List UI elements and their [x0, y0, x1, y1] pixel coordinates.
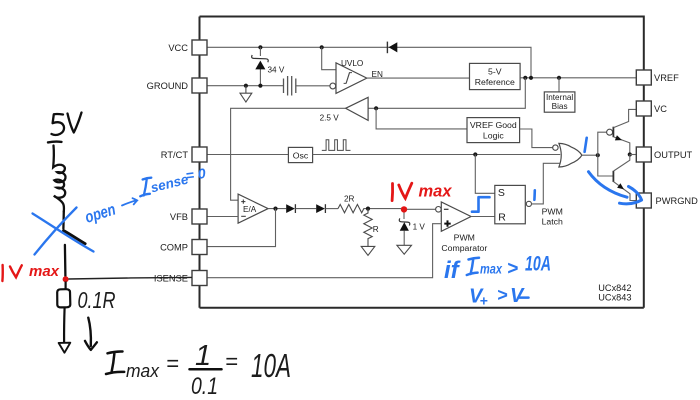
blue note V+ > V-	[469, 285, 529, 309]
svg-text:VFB: VFB	[170, 212, 188, 222]
latch PWM Latch SR flip-flop	[495, 185, 532, 223]
node ground-symbol junction	[244, 84, 248, 88]
svg-text:10A: 10A	[525, 253, 551, 276]
switch blade open	[64, 231, 86, 244]
svg-text:Logic: Logic	[483, 130, 504, 140]
node buffer input branch	[374, 106, 378, 110]
block Osc	[288, 147, 312, 162]
svg-text:GROUND: GROUND	[147, 81, 189, 91]
wire latch output to NOR input	[531, 163, 560, 204]
svg-text:VCC: VCC	[168, 43, 188, 53]
wire dot to resistor	[64, 282, 66, 290]
wire NOR output	[582, 154, 598, 156]
equation Imax = 1/0.1 = 10A	[106, 340, 291, 400]
wire Osc output clock line	[313, 154, 561, 156]
svg-text:1 V: 1 V	[413, 222, 426, 231]
IC outline UCx842 block border	[200, 17, 644, 308]
wire VREF rail	[520, 77, 636, 79]
wire VREF Good Logic to NOR input	[520, 129, 553, 148]
svg-text:Internal: Internal	[546, 93, 573, 102]
wire VCC rail	[207, 47, 531, 78]
svg-text:VREF Good: VREF Good	[470, 120, 517, 130]
zener diode 34V	[252, 47, 269, 85]
op-amp PWM comparator	[436, 202, 471, 231]
svg-text:RT/CT: RT/CT	[161, 150, 189, 160]
wire hand-drawn to ISENSE pin	[69, 277, 193, 279]
svg-text:max: max	[419, 182, 453, 201]
pin VFB	[170, 209, 207, 224]
blue note open -> Isense = 0	[83, 165, 207, 227]
svg-text:max: max	[29, 263, 60, 280]
pin PWRGND	[636, 193, 698, 208]
svg-text:OUTPUT: OUTPUT	[654, 150, 693, 160]
ground symbol below 1V zener	[397, 245, 412, 254]
svg-text:>: >	[497, 285, 508, 305]
svg-text:VREF: VREF	[654, 73, 679, 83]
wire comparator output to R input	[471, 216, 495, 218]
svg-text:+: +	[480, 293, 488, 309]
svg-text:0.1: 0.1	[191, 373, 218, 400]
pin COMP	[160, 240, 207, 255]
svg-text:COMP: COMP	[160, 242, 188, 252]
ground symbol below GROUND rail	[240, 86, 252, 102]
wire VFB to E/A minus input	[207, 216, 238, 218]
wire resistor to ground arrow	[63, 308, 66, 343]
diode D2	[286, 204, 295, 213]
wire branch to VREF Good Logic	[376, 108, 467, 129]
node output junction	[628, 152, 632, 156]
svg-text:Osc: Osc	[293, 150, 309, 160]
clock waveform glyph	[322, 140, 351, 151]
fraction bar	[190, 368, 222, 371]
gate NOR output gate	[553, 143, 582, 167]
wire VREF to internal bias	[558, 78, 560, 92]
block 5-V Reference	[470, 63, 521, 89]
svg-text:= 0: = 0	[185, 165, 207, 184]
node sense red dot	[63, 276, 69, 282]
wire battery to UVLO input	[296, 85, 330, 87]
node VREF rail diode branch	[529, 76, 533, 80]
node VREF rail bias branch	[557, 76, 561, 80]
svg-text:1: 1	[195, 340, 211, 372]
svg-text:34 V: 34 V	[268, 66, 285, 75]
svg-text:=: =	[166, 351, 179, 376]
svg-text:Bias: Bias	[552, 102, 568, 111]
node zener-bottom junction	[258, 84, 262, 88]
svg-text:V: V	[510, 285, 525, 307]
svg-text:VC: VC	[654, 104, 667, 114]
svg-text:2.5 V: 2.5 V	[320, 114, 340, 123]
wire clock branch to S input	[475, 155, 495, 194]
svg-text:sense: sense	[149, 171, 190, 195]
wire VCC to UVLO upper input	[322, 47, 336, 69]
arrow hand-drawn down	[88, 318, 91, 346]
handwritten 5V label	[52, 113, 82, 135]
blue mark 1 at latch output	[533, 190, 536, 200]
node clock to S-input branch	[473, 152, 477, 156]
wire ISENSE to comparator plus input	[207, 224, 441, 278]
svg-text:UVLO: UVLO	[341, 59, 363, 68]
pin RT/CT	[161, 147, 207, 162]
node VREF rail 2.5V branch	[523, 76, 527, 80]
zener diode 1V clamp	[399, 212, 410, 245]
svg-text:UCx842: UCx842	[598, 283, 631, 293]
buffer 2.5V reference	[346, 97, 369, 120]
red label 1 V max left	[2, 263, 59, 281]
pin OUTPUT	[636, 147, 692, 162]
wire 2R to comparator minus	[364, 208, 401, 210]
node NOR output	[596, 153, 600, 157]
pin VREF	[636, 70, 679, 85]
wire VREF branch to 2.5V buffer	[368, 78, 525, 109]
wire GROUND rail	[207, 85, 283, 87]
blue curved arrow to PWRGND	[589, 172, 642, 204]
svg-text:max: max	[480, 261, 503, 277]
wire D2 to D3	[296, 208, 317, 210]
pin VC	[636, 101, 667, 116]
svg-text:5-V: 5-V	[488, 66, 502, 76]
wire feedback to COMP pin	[207, 209, 276, 247]
wire clamp node to comparator minus input	[404, 208, 436, 210]
inductor hand-drawn coil	[53, 146, 65, 212]
wire coil to switch	[62, 212, 65, 229]
blue step mark at R input	[472, 197, 490, 212]
svg-text:E/A: E/A	[243, 205, 257, 214]
svg-text:2R: 2R	[344, 194, 355, 203]
wire E/A output	[268, 208, 286, 210]
svg-text:max: max	[126, 361, 160, 381]
pin VCC	[168, 40, 207, 55]
node VCC-zener junction	[258, 45, 262, 49]
transistor Q2 lower totem pole	[598, 155, 637, 201]
svg-text:S: S	[498, 187, 505, 199]
resistor 0.1R hand-drawn body	[57, 289, 70, 307]
wire RT/CT to Osc	[207, 154, 288, 156]
svg-text:=: =	[225, 349, 238, 374]
node divider junction	[366, 207, 370, 211]
svg-text:PWRGND: PWRGND	[656, 196, 699, 206]
svg-text:10A: 10A	[251, 347, 291, 384]
block Internal Bias	[544, 92, 575, 112]
wire buffer output to E/A plus input	[231, 108, 346, 200]
svg-text:if: if	[444, 257, 461, 284]
svg-text:Comparator: Comparator	[441, 243, 487, 253]
resistor R to ground	[364, 209, 372, 247]
svg-text:open: open	[83, 201, 118, 227]
block VREF Good Logic	[467, 118, 520, 143]
blue note if Imax > 10A	[444, 253, 551, 285]
wire D3 to 2R	[326, 208, 339, 210]
diode D1 on VCC rail	[387, 42, 397, 54]
svg-text:>: >	[507, 259, 518, 280]
svg-text:PWM: PWM	[542, 206, 563, 216]
transistor Q1 upper totem pole	[598, 109, 637, 155]
resistor 2R	[338, 204, 364, 212]
node VCC-UVLO junction	[320, 45, 324, 49]
blue mark 1 at NOR output	[585, 138, 587, 152]
svg-text:Reference: Reference	[475, 77, 515, 87]
svg-text:UCx843: UCx843	[598, 293, 631, 303]
node red dot at 1V clamp	[401, 206, 407, 212]
battery offset symbol	[284, 76, 296, 96]
op-amp E/A error amplifier	[238, 194, 268, 223]
svg-text:PWM: PWM	[454, 233, 475, 243]
pin ISENSE	[154, 271, 207, 286]
svg-text:0.1R: 0.1R	[78, 287, 116, 313]
wire EN to 5-V Reference	[367, 77, 470, 79]
diode D3	[316, 204, 325, 213]
op-amp UVLO comparator	[330, 63, 367, 94]
red label 1V max at comparator	[392, 182, 453, 201]
ground symbol below R	[361, 246, 375, 255]
blue X over switch	[33, 208, 94, 255]
ground arrow hand-drawn	[59, 343, 71, 353]
wire to OUTPUT pin	[630, 154, 637, 156]
svg-text:R: R	[373, 225, 379, 234]
handwritten battery bar	[48, 140, 62, 143]
svg-text:R: R	[498, 212, 506, 224]
pin GROUND	[147, 78, 207, 93]
wire switch to sense node	[64, 245, 67, 276]
svg-text:Latch: Latch	[542, 217, 563, 227]
node E/A output	[273, 207, 277, 211]
